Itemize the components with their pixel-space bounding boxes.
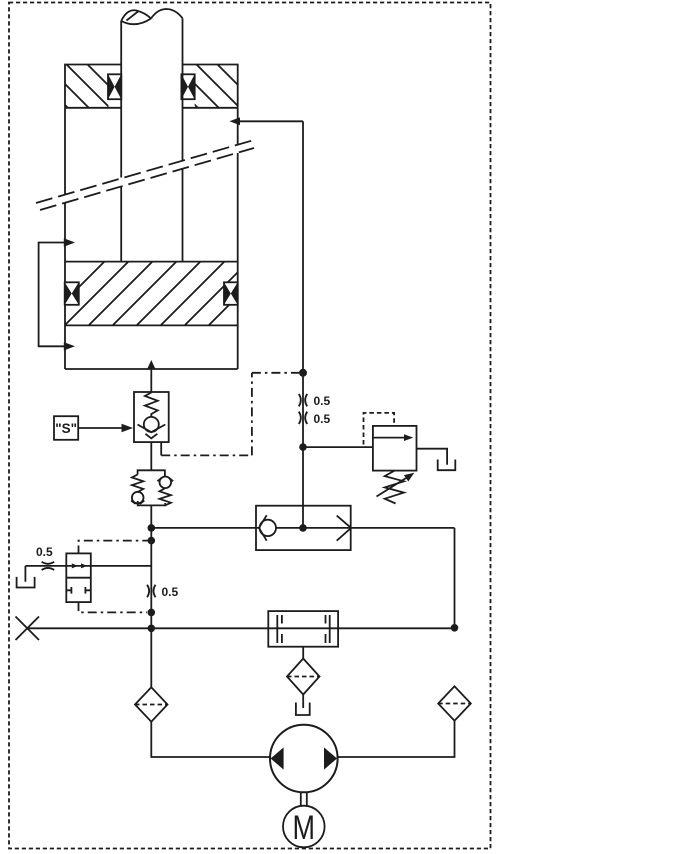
junction node C: [148, 609, 156, 617]
relief valve outlet to tank: [417, 449, 448, 465]
plugged port X: [16, 617, 40, 641]
break line upper: [36, 140, 254, 203]
bypass valve body: [66, 553, 91, 602]
wire: bottom header: [27, 627, 454, 629]
cylinder bottom cap: [65, 368, 238, 370]
bypass valve pilot line upper (dash-dot): [79, 541, 152, 546]
cylinder right wall: [237, 108, 239, 369]
cooler drain line: [302, 647, 304, 659]
piston hatching: [34, 262, 272, 332]
svg-text:0.5: 0.5: [314, 412, 331, 426]
arrow into rod-side port: [230, 117, 241, 125]
check valve block outlet chevron: [337, 516, 351, 541]
pilot check valve ball: [144, 417, 159, 432]
line check valve to dual lock: [150, 442, 152, 470]
piston rod left edge: [120, 21, 122, 262]
bypass valve blocked ports: [66, 587, 91, 594]
rod seal right (gland): [181, 74, 194, 99]
relief valve body: [373, 426, 417, 471]
pump triangle right: [324, 747, 337, 769]
junction node G: [299, 443, 307, 451]
cooler block body: [268, 611, 338, 647]
bypass valve pilot line lower (dash-dot): [79, 602, 148, 612]
junction node D: [148, 625, 156, 633]
cooler block left plates: [277, 615, 282, 643]
cooler block right plates: [326, 615, 330, 643]
junction node A: [148, 524, 156, 532]
dual lock right seat: [157, 478, 173, 481]
wire: mid horizontal to check block: [151, 527, 454, 529]
bypass valve flow line: [25, 565, 151, 567]
dual lock right ball: [160, 477, 172, 489]
cylinder left wall: [64, 108, 66, 369]
piston outline: [65, 262, 238, 326]
relief valve adjust arrow: [377, 477, 408, 496]
svg-text:M: M: [293, 809, 316, 847]
svg-text:"S": "S": [55, 421, 77, 436]
relief valve pilot line (dashed): [364, 413, 395, 445]
svg-text:0.5: 0.5: [314, 394, 331, 408]
piston seal left: [65, 282, 79, 305]
tank symbol (bypass drain): [17, 566, 35, 588]
pilot signal line S: [78, 427, 123, 429]
svg-text:0.5: 0.5: [36, 545, 53, 559]
dual lock left seat: [131, 501, 144, 504]
enclosure boundary (dashed frame): [9, 3, 491, 849]
piston rod right edge: [182, 18, 184, 262]
bypass valve arrowheads: [72, 563, 78, 568]
dual lock right spring: [160, 488, 171, 505]
wire: branch to relief valve: [303, 446, 373, 448]
dual lock left spring: [132, 475, 143, 493]
rod gland hatching: [24, 64, 132, 109]
junction node F: [299, 369, 307, 377]
dual lock left ball: [132, 492, 144, 504]
piston rod broken top: [121, 9, 182, 24]
pilot-operated check valve body: [134, 392, 169, 442]
rod seal left (gland): [108, 74, 121, 99]
motor circle M: [283, 806, 325, 848]
pump circle: [270, 725, 338, 793]
check valve block seat: [259, 515, 267, 541]
main supply line vertical: [150, 505, 152, 687]
pilot check valve spring: [145, 393, 158, 418]
drain to tank line: [302, 695, 304, 709]
junction node B: [148, 537, 156, 545]
rod side port line: [239, 121, 303, 528]
tank symbol (relief drain): [438, 460, 456, 471]
svg-text:0.5: 0.5: [162, 585, 179, 599]
check valve block body: [256, 506, 351, 550]
pilot check valve seat: [138, 425, 166, 439]
wire: left drop to pump: [151, 722, 270, 757]
dual pilot lock valve outline: [138, 470, 165, 477]
orifice 0.5 on drain line: [42, 562, 55, 570]
orifice 0.5 lower on rod-side line: [299, 412, 307, 424]
break line lower: [40, 148, 254, 210]
port bracket pipe (left): [39, 243, 65, 347]
pilot line to check valve (dash-dot): [160, 442, 162, 455]
relief valve flow arrow: [373, 437, 406, 439]
arrow into annulus port: [64, 238, 75, 246]
filter left diamond: [135, 687, 168, 721]
bypass valve divider: [66, 577, 91, 579]
junction node E: [299, 524, 307, 532]
drive shaft: [301, 792, 307, 806]
arrow into bottom port: [64, 342, 75, 350]
pump triangle left: [271, 747, 284, 769]
piston seal right: [224, 282, 238, 305]
tank symbol (cooler drain): [296, 703, 310, 716]
filter right diamond: [438, 686, 471, 720]
orifice 0.5 upper on rod-side line: [299, 394, 307, 406]
rod gland outline: [65, 65, 238, 108]
pilot signal arrowhead: [122, 424, 134, 432]
wire: right riser: [454, 528, 456, 628]
junction node H: [451, 624, 459, 632]
dual lock bottom: [138, 501, 166, 505]
relief valve spring: [385, 471, 404, 504]
check valve block ball: [260, 520, 276, 536]
line cylinder to check valve: [150, 369, 152, 392]
solenoid box S: [54, 416, 78, 440]
strainer (center diamond): [287, 659, 320, 695]
arrow into cylinder base: [147, 360, 156, 369]
orifice 0.5 on supply line: [147, 585, 155, 597]
wire: right drop to pump: [338, 721, 455, 757]
